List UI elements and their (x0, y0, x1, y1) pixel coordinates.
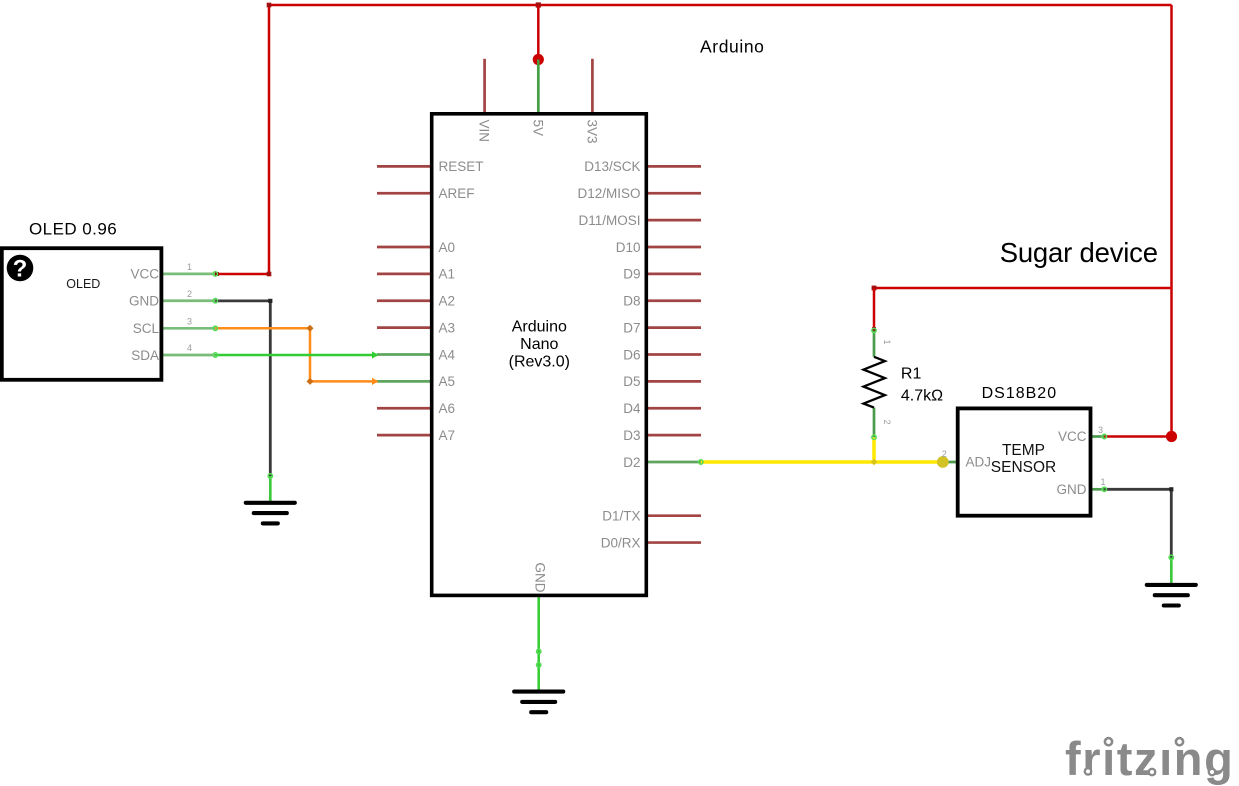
svg-text:1: 1 (187, 262, 192, 272)
svg-text:GND: GND (1057, 482, 1087, 497)
svg-text:3V3: 3V3 (584, 120, 599, 144)
svg-text:3: 3 (1098, 425, 1103, 435)
svg-text:DS18B20: DS18B20 (982, 385, 1058, 402)
svg-text:D11/MOSI: D11/MOSI (578, 213, 640, 228)
svg-text:VIN: VIN (477, 120, 492, 143)
svg-text:D10: D10 (616, 240, 641, 255)
svg-text:D8: D8 (623, 294, 640, 309)
svg-text:VCC: VCC (1058, 429, 1087, 444)
svg-text:D2: D2 (623, 455, 640, 470)
svg-text:AREF: AREF (439, 186, 475, 201)
svg-text:OLED: OLED (66, 277, 100, 291)
svg-text:D9: D9 (623, 267, 640, 282)
svg-text:A3: A3 (439, 320, 456, 335)
svg-text:A2: A2 (439, 294, 456, 309)
svg-text:VCC: VCC (130, 267, 159, 282)
svg-text:D4: D4 (623, 401, 641, 416)
svg-text:(Rev3.0): (Rev3.0) (509, 354, 570, 371)
svg-text:D12/MISO: D12/MISO (577, 186, 640, 201)
svg-text:D13/SCK: D13/SCK (584, 159, 640, 174)
svg-text:2: 2 (187, 289, 192, 299)
svg-text:frıtzıng: frıtzıng (1065, 732, 1234, 785)
svg-text:D5: D5 (623, 374, 640, 389)
svg-text:1: 1 (882, 339, 892, 344)
svg-text:3: 3 (187, 316, 192, 326)
svg-text:SENSOR: SENSOR (991, 459, 1056, 476)
svg-text:GND: GND (129, 294, 159, 309)
svg-text:2: 2 (942, 449, 947, 459)
svg-text:A7: A7 (439, 428, 456, 443)
svg-text:RESET: RESET (439, 159, 484, 174)
svg-text:ADJ: ADJ (966, 455, 992, 470)
svg-text:A5: A5 (439, 374, 456, 389)
svg-text:A4: A4 (439, 347, 456, 362)
svg-text:TEMP: TEMP (1002, 442, 1045, 459)
svg-text:OLED 0.96: OLED 0.96 (29, 220, 117, 239)
svg-text:A1: A1 (439, 267, 456, 282)
svg-text:Sugar device: Sugar device (1000, 237, 1158, 268)
svg-text:4.7kΩ: 4.7kΩ (901, 388, 943, 405)
svg-text:SDA: SDA (131, 348, 159, 363)
svg-text:R1: R1 (901, 365, 922, 382)
svg-text:A0: A0 (439, 240, 456, 255)
svg-text:D3: D3 (623, 428, 640, 443)
svg-text:5V: 5V (530, 120, 545, 137)
svg-text:Arduino: Arduino (512, 318, 567, 335)
svg-text:?: ? (13, 256, 28, 283)
svg-text:Nano: Nano (520, 336, 558, 353)
svg-text:4: 4 (187, 343, 192, 353)
svg-text:A6: A6 (439, 401, 456, 416)
svg-text:Arduino: Arduino (700, 36, 765, 56)
svg-text:GND: GND (533, 563, 548, 593)
svg-text:D1/TX: D1/TX (602, 509, 640, 524)
svg-text:D6: D6 (623, 347, 640, 362)
svg-text:D0/RX: D0/RX (601, 535, 641, 550)
svg-text:1: 1 (1100, 477, 1105, 487)
svg-text:SCL: SCL (133, 321, 160, 336)
svg-text:2: 2 (882, 419, 892, 424)
svg-text:D7: D7 (623, 320, 640, 335)
